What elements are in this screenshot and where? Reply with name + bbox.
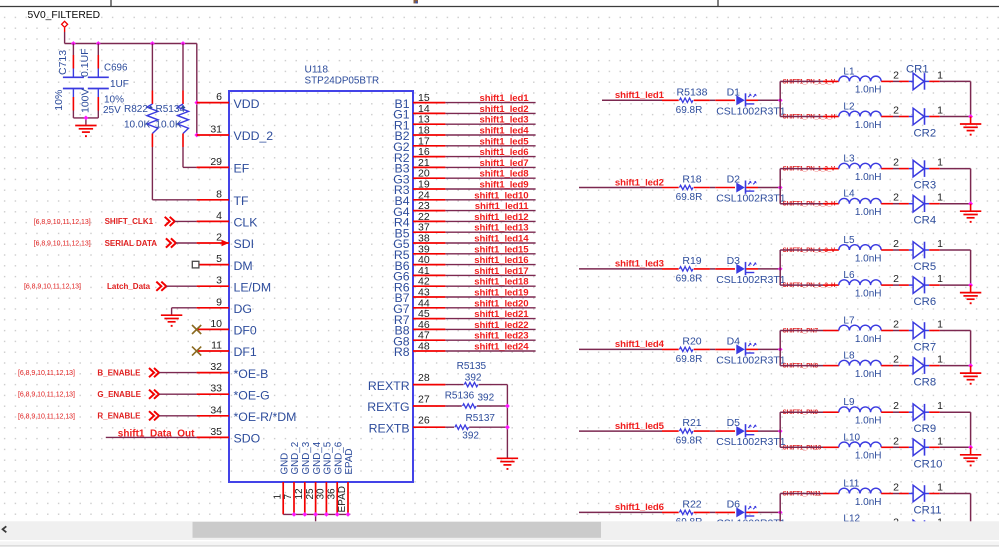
- wire inductor to diode pin 2: [881, 354, 909, 366]
- inductor L12 1.0nH: [839, 514, 882, 543]
- svg-text:TF: TF: [234, 194, 250, 208]
- inductor L4 1.0nH: [839, 189, 882, 218]
- wire inductor to diode pin 2: [881, 105, 909, 117]
- svg-text:2: 2: [893, 354, 899, 366]
- diode CR4: [909, 195, 936, 226]
- svg-text:L1: L1: [843, 66, 855, 77]
- wire return vertical led1: [970, 81, 972, 116]
- junction: [71, 41, 76, 46]
- pin 6 VDD: [197, 91, 260, 111]
- pin 36 GND_6: [326, 441, 344, 514]
- svg-text:GND_3: GND_3: [301, 441, 312, 474]
- pin 14 G1 / net shift1_led2: [393, 103, 535, 122]
- wire inductor to diode pin 2: [881, 238, 909, 250]
- junction: [150, 41, 155, 46]
- svg-text:REXTG: REXTG: [367, 400, 409, 414]
- pin 13 R1 / net shift1_led3: [394, 114, 536, 133]
- svg-text:10%: 10%: [53, 90, 65, 111]
- svg-text:31: 31: [210, 124, 222, 136]
- svg-text:R5136: R5136: [445, 390, 475, 401]
- sheet border top line: [0, 6, 999, 8]
- wire inductor to diode pin 2: [881, 482, 909, 494]
- svg-text:SDO: SDO: [234, 432, 261, 446]
- wire 5V0 bus: [65, 44, 197, 136]
- pin 17 G2 / net shift1_led5: [393, 135, 535, 154]
- pin 40 B6 / net shift1_led16: [395, 254, 536, 273]
- resistor R21 69.8R: [676, 417, 716, 447]
- wire to ground: [970, 529, 972, 536]
- svg-text:2: 2: [893, 400, 899, 412]
- wire to ground: [970, 447, 972, 454]
- svg-text:D6: D6: [727, 498, 741, 510]
- resistor R5134 10.0K: [155, 44, 188, 148]
- diode CR12: [909, 520, 942, 551]
- pin 42 R6 / net shift1_led18: [394, 276, 536, 295]
- svg-text:SHIFT_CLK1: SHIFT_CLK1: [105, 217, 154, 226]
- svg-text:27: 27: [418, 394, 430, 406]
- svg-text:L11: L11: [843, 479, 859, 490]
- svg-text:CR4: CR4: [914, 215, 937, 227]
- net label SHIFT1_PN_1_3_H: [783, 282, 836, 289]
- net label shift1_led5: [615, 421, 665, 432]
- svg-text:1: 1: [937, 69, 943, 81]
- wire shift1_led6: [579, 511, 679, 513]
- inductor L7 1.0nH: [839, 316, 882, 345]
- pin 47 G8 / net shift1_led23: [393, 330, 535, 349]
- svg-text:shift1_led5: shift1_led5: [479, 136, 529, 147]
- svg-text:1: 1: [937, 400, 943, 412]
- port Latch_Data: [24, 282, 197, 291]
- svg-text:R18: R18: [682, 174, 701, 186]
- svg-text:12: 12: [294, 488, 305, 500]
- wire R822 to TF: [152, 147, 196, 200]
- svg-text:CSL1002R3T1: CSL1002R3T1: [716, 105, 786, 117]
- diode CR1: [906, 64, 929, 90]
- net label SHIFT1_PN11: [783, 491, 822, 498]
- svg-text:69.8R: 69.8R: [676, 436, 703, 447]
- pin 45 R7 / net shift1_led21: [394, 308, 536, 327]
- svg-text:L7: L7: [843, 316, 855, 327]
- junction: [335, 512, 340, 517]
- resistor R19 69.8R: [676, 255, 716, 285]
- wire to ground: [970, 204, 972, 211]
- ground: [960, 293, 981, 305]
- svg-text:shift1_led1: shift1_led1: [479, 93, 529, 104]
- no-ERC X pin DF0: [192, 325, 201, 334]
- wire diode pin 1 to return: [929, 517, 970, 529]
- power port 5V0_FILTERED: [28, 10, 100, 27]
- svg-text:L10: L10: [843, 432, 860, 443]
- svg-text:shift1_led17: shift1_led17: [474, 266, 528, 277]
- svg-text:69.8R: 69.8R: [676, 192, 703, 203]
- net label SHIFT1_PN12: [783, 526, 822, 533]
- resistor R5136 392: [445, 390, 508, 408]
- svg-text:shift1_led5: shift1_led5: [615, 421, 665, 432]
- wire capacitor bottoms: [73, 118, 98, 125]
- inductor L10 1.0nH: [839, 432, 882, 461]
- svg-text:B_ENABLE: B_ENABLE: [97, 368, 141, 377]
- svg-text:C713: C713: [57, 50, 69, 75]
- diode CR8: [909, 357, 936, 388]
- svg-text:2: 2: [216, 232, 222, 244]
- svg-text:shift1_led11: shift1_led11: [475, 201, 529, 212]
- diode CR11: [909, 485, 942, 516]
- junction: [968, 445, 973, 450]
- svg-text:R21: R21: [682, 417, 701, 429]
- svg-text:CR1: CR1: [906, 64, 929, 76]
- svg-text:2: 2: [893, 273, 899, 285]
- net label SHIFT1_PN_1_2_H: [783, 201, 836, 208]
- svg-text:34: 34: [210, 404, 222, 416]
- svg-text:CR10: CR10: [914, 458, 943, 470]
- svg-text:1.0nH: 1.0nH: [855, 120, 882, 131]
- pin 27 REXTG: [367, 394, 445, 415]
- resistor R822 10.0K: [124, 44, 158, 148]
- port R_ENABLE: [18, 411, 197, 420]
- svg-text:shift1_led4: shift1_led4: [615, 339, 665, 350]
- wire inductor to diode pin 2: [881, 400, 909, 412]
- diode D2 CSL1002R3T1: [715, 174, 786, 205]
- svg-text:D2: D2: [727, 174, 741, 186]
- wire R5134 to EF: [183, 147, 197, 167]
- wire return vertical led2: [970, 169, 972, 204]
- pin 10 DF0: [197, 318, 257, 338]
- svg-text:CR2: CR2: [914, 128, 937, 140]
- wire diode pin 1 to return: [929, 482, 970, 494]
- net label SHIFT1_PN9: [783, 409, 819, 416]
- svg-text:shift1_led7: shift1_led7: [479, 158, 528, 169]
- svg-text:3: 3: [216, 275, 222, 287]
- pin 12 GND_3: [294, 441, 312, 514]
- svg-text:shift1_led16: shift1_led16: [474, 255, 528, 266]
- pin 28 REXTR: [368, 372, 445, 393]
- svg-text:CSL1002R3T1: CSL1002R3T1: [716, 274, 786, 286]
- junction: [778, 429, 783, 434]
- svg-text:2: 2: [893, 105, 899, 117]
- resistor R22 69.8R: [676, 498, 716, 528]
- svg-text:EPAD: EPAD: [344, 449, 355, 475]
- wire return vertical led4: [970, 331, 972, 366]
- junction: [181, 41, 186, 46]
- resistor R18 69.8R: [676, 174, 716, 204]
- svg-text:1: 1: [937, 273, 943, 285]
- pin 35 SDO: [197, 426, 261, 446]
- pin 29 EF: [197, 156, 250, 176]
- svg-text:SERIAL DATA: SERIAL DATA: [105, 239, 158, 248]
- svg-text:[6,8,9,10,11,12,13]: [6,8,9,10,11,12,13]: [34, 219, 91, 226]
- pin 1 GND: [272, 453, 290, 515]
- svg-text:shift1_led22: shift1_led22: [474, 320, 528, 331]
- pin 19 R3 / net shift1_led9: [394, 179, 536, 198]
- port B_ENABLE: [18, 368, 197, 377]
- svg-text:CLK: CLK: [234, 216, 259, 230]
- svg-text:GND: GND: [279, 453, 290, 475]
- svg-text:D5: D5: [727, 417, 741, 429]
- wire shift1_led4: [579, 348, 679, 350]
- wire branch SHIFT1_PN_1_2_H: [780, 203, 839, 205]
- svg-text:D1: D1: [727, 86, 741, 98]
- wire branch SHIFT1_PN_1_1_V: [780, 80, 839, 82]
- capacitor C713 0.1UF 10% 100V: [53, 44, 92, 118]
- ground: [960, 211, 981, 223]
- IC U118 STP24DP05BTR body: [229, 65, 413, 483]
- junction: [968, 283, 973, 288]
- svg-text:2: 2: [893, 69, 899, 81]
- junction: [778, 267, 783, 272]
- svg-text:R19: R19: [682, 255, 701, 267]
- small zone marker glyph: [414, 0, 419, 3]
- svg-text:[6,8,9,10,11,12,13]: [6,8,9,10,11,12,13]: [18, 370, 75, 377]
- svg-text:DF0: DF0: [234, 324, 257, 338]
- svg-text:shift1_led14: shift1_led14: [474, 234, 529, 245]
- ground: [497, 458, 518, 470]
- svg-text:1.0nH: 1.0nH: [855, 369, 882, 380]
- svg-text:[6,8,9,10,11,12,13]: [6,8,9,10,11,12,13]: [24, 284, 81, 291]
- svg-text:GND_5: GND_5: [323, 441, 334, 474]
- net label SHIFT1_PN7: [783, 328, 819, 335]
- pin EPAD EPAD: [337, 449, 355, 515]
- svg-text:1.0nH: 1.0nH: [855, 451, 882, 462]
- svg-text:VDD: VDD: [234, 97, 260, 111]
- junction: [968, 201, 973, 206]
- wire shift1_led2: [579, 187, 679, 189]
- pin 16 R2 / net shift1_led6: [394, 146, 536, 165]
- wire branch split led6: [779, 494, 781, 529]
- svg-text:VDD_2: VDD_2: [234, 129, 274, 143]
- wire DG to ground: [172, 308, 197, 315]
- wire inductor to diode pin 2: [881, 192, 909, 204]
- junction: [968, 363, 973, 368]
- svg-text:shift1_led3: shift1_led3: [479, 115, 528, 126]
- wire GND bus: [283, 514, 348, 521]
- svg-text:*OE-R/*DM: *OE-R/*DM: [234, 410, 297, 424]
- svg-text:392: 392: [465, 372, 482, 383]
- pin SDI input arrow: [222, 240, 230, 246]
- svg-text:SDI: SDI: [234, 237, 255, 251]
- diode CR2: [909, 108, 936, 139]
- svg-text:R_ENABLE: R_ENABLE: [97, 412, 141, 421]
- svg-text:1: 1: [937, 192, 943, 204]
- wire return vertical led5: [970, 412, 972, 447]
- wire branch SHIFT1_PN12: [780, 528, 839, 530]
- diode CR10: [909, 439, 942, 470]
- svg-text:25: 25: [305, 488, 316, 500]
- svg-text:R822: R822: [124, 104, 148, 115]
- svg-text:48: 48: [418, 341, 430, 353]
- junction: [346, 512, 351, 517]
- svg-text:1.0nH: 1.0nH: [855, 334, 882, 345]
- svg-text:1: 1: [272, 494, 283, 500]
- ground: [960, 373, 981, 385]
- wire diode pin 1 to return: [929, 157, 970, 169]
- svg-text:*OE-G: *OE-G: [234, 388, 270, 402]
- svg-text:Latch_Data: Latch_Data: [107, 282, 151, 291]
- svg-text:GND_4: GND_4: [312, 441, 323, 474]
- wire REXT common to ground: [506, 385, 508, 458]
- svg-text:1.0nH: 1.0nH: [855, 497, 882, 508]
- wire inductor to diode pin 2: [881, 435, 909, 447]
- junction: [324, 512, 329, 517]
- svg-text:1.0nH: 1.0nH: [855, 207, 882, 218]
- svg-text:D3: D3: [727, 255, 741, 267]
- pin 31 VDD_2: [197, 124, 274, 144]
- svg-text:1: 1: [937, 157, 943, 169]
- svg-text:L6: L6: [843, 270, 855, 281]
- svg-text:32: 32: [210, 361, 222, 373]
- svg-text:2: 2: [893, 319, 899, 331]
- svg-text:1: 1: [937, 435, 943, 447]
- svg-text:69.8R: 69.8R: [676, 354, 703, 365]
- wire shift1_led1: [602, 99, 679, 101]
- wire to ground: [970, 366, 972, 373]
- svg-text:U118: U118: [305, 65, 329, 76]
- diode D5 CSL1002R3T1: [715, 417, 786, 448]
- net label SHIFT1_PN10: [783, 444, 822, 451]
- pin 2 SDI: [197, 232, 254, 252]
- net label shift1_led1: [615, 90, 665, 101]
- svg-text:[6,8,9,10,11,12,13]: [6,8,9,10,11,12,13]: [18, 392, 75, 399]
- inductor L6 1.0nH: [839, 270, 882, 299]
- svg-text:9: 9: [216, 296, 222, 308]
- junction: [194, 133, 199, 138]
- svg-text:shift1_led23: shift1_led23: [474, 331, 528, 342]
- wire to ground: [970, 117, 972, 124]
- svg-text:7: 7: [283, 494, 294, 500]
- svg-text:shift1_led6: shift1_led6: [615, 502, 664, 513]
- svg-text:2: 2: [893, 192, 899, 204]
- svg-text:1.0nH: 1.0nH: [855, 172, 882, 183]
- svg-text:shift1_led8: shift1_led8: [479, 169, 529, 180]
- svg-text:5V0_FILTERED: 5V0_FILTERED: [28, 10, 100, 21]
- svg-text:*OE-B: *OE-B: [234, 367, 269, 381]
- svg-text:26: 26: [418, 415, 430, 427]
- pin 22 R4 / net shift1_led12: [394, 211, 536, 230]
- svg-text:28: 28: [418, 372, 430, 384]
- horizontal scrollbar: [0, 521, 999, 555]
- inductor L5 1.0nH: [839, 235, 882, 264]
- junction: [778, 510, 783, 515]
- junction: [778, 347, 783, 352]
- diode CR9: [909, 404, 936, 435]
- svg-text:DM: DM: [234, 259, 253, 273]
- svg-text:2: 2: [893, 157, 899, 169]
- svg-text:5: 5: [216, 253, 222, 265]
- wire inductor to diode pin 2: [881, 319, 909, 331]
- net label shift1_led4: [615, 339, 665, 350]
- wire return vertical led3: [970, 250, 972, 285]
- capacitor C696 1UF 10% 25V: [88, 44, 129, 118]
- svg-text:shift1_led10: shift1_led10: [474, 190, 528, 201]
- svg-text:R5135: R5135: [457, 361, 487, 372]
- svg-text:1: 1: [937, 319, 943, 331]
- port G_ENABLE: [18, 390, 197, 399]
- wire branch split led2: [779, 169, 781, 204]
- svg-text:1.0nH: 1.0nH: [855, 253, 882, 264]
- net label shift1_led6: [615, 502, 664, 513]
- diode CR5: [909, 242, 936, 273]
- svg-text:R5138: R5138: [677, 86, 708, 98]
- svg-text:shift1_led3: shift1_led3: [615, 259, 664, 270]
- inductor L2 1.0nH: [839, 102, 882, 131]
- junction: [84, 116, 89, 121]
- pin 21 B3 / net shift1_led7: [395, 157, 536, 176]
- pin 34 *OE-R/*DM: [197, 404, 297, 424]
- svg-text:CR6: CR6: [914, 296, 937, 308]
- resistor R20 69.8R: [676, 335, 716, 365]
- svg-text:69.8R: 69.8R: [676, 105, 703, 116]
- junction: [292, 512, 297, 517]
- junction: [505, 425, 510, 430]
- port SHIFT_CLK1: [34, 217, 197, 226]
- wire branch SHIFT1_PN9: [780, 411, 839, 413]
- wire branch SHIFT1_PN_1_1_H: [780, 116, 839, 118]
- svg-text:1.0nH: 1.0nH: [855, 85, 882, 96]
- wire inductor to diode pin 2: [881, 157, 909, 169]
- svg-text:CR8: CR8: [914, 377, 937, 389]
- junction: [194, 100, 199, 105]
- svg-text:CR3: CR3: [914, 180, 937, 192]
- svg-text:EF: EF: [234, 162, 250, 176]
- sheet border zone tick: [717, 0, 719, 7]
- svg-text:shift1_led19: shift1_led19: [474, 288, 528, 299]
- junction: [505, 404, 510, 409]
- pin 8 TF: [197, 188, 249, 208]
- wire diode pin 1 to return: [929, 192, 970, 204]
- pin 41 G6 / net shift1_led17: [393, 265, 535, 284]
- pin 5 DM: [197, 253, 253, 273]
- net label shift1_Data_Out: [106, 429, 197, 440]
- diode D3 CSL1002R3T1: [715, 255, 786, 286]
- wire diode pin 1 to return: [929, 319, 970, 331]
- svg-text:L9: L9: [843, 397, 855, 408]
- net label SHIFT1_PN_1_3_V: [783, 247, 836, 254]
- svg-text:CR7: CR7: [914, 342, 937, 354]
- pin 23 G4 / net shift1_led11: [393, 200, 535, 219]
- pin 44 G7 / net shift1_led20: [393, 297, 535, 316]
- ground: [161, 315, 182, 327]
- pin 43 B7 / net shift1_led19: [395, 287, 536, 306]
- diode D1 CSL1002R3T1: [715, 86, 786, 117]
- svg-text:STP24DP05BTR: STP24DP05BTR: [305, 76, 380, 87]
- pin 32 *OE-B: [197, 361, 269, 381]
- svg-text:shift1_led12: shift1_led12: [474, 212, 528, 223]
- pin 15 B1 / net shift1_led1: [395, 92, 536, 111]
- svg-text:shift1_led18: shift1_led18: [474, 277, 529, 288]
- sheet border zone tick: [110, 0, 112, 7]
- pin 4 CLK: [197, 210, 259, 230]
- svg-text:shift1_led20: shift1_led20: [474, 298, 528, 309]
- wire power port to bus: [64, 28, 66, 44]
- svg-text:LE/DM: LE/DM: [234, 280, 272, 294]
- svg-text:CSL1002R3T1: CSL1002R3T1: [716, 193, 786, 205]
- svg-text:69.8R: 69.8R: [676, 273, 703, 284]
- wire diode pin 1 to return: [929, 354, 970, 366]
- svg-text:shift1_led13: shift1_led13: [474, 223, 528, 234]
- svg-text:1: 1: [937, 354, 943, 366]
- wire to ground: [970, 285, 972, 292]
- svg-text:2: 2: [893, 435, 899, 447]
- svg-text:29: 29: [210, 156, 222, 168]
- svg-text:shift1_led21: shift1_led21: [474, 309, 529, 320]
- pin 26 REXTB: [369, 415, 446, 436]
- svg-text:1: 1: [937, 105, 943, 117]
- wire return vertical led6: [970, 494, 972, 529]
- wire branch SHIFT1_PN_1_3_V: [780, 249, 839, 251]
- diode CR3: [909, 160, 936, 191]
- junction: [302, 512, 307, 517]
- svg-text:REXTR: REXTR: [368, 379, 410, 393]
- net label shift1_led2: [615, 177, 664, 188]
